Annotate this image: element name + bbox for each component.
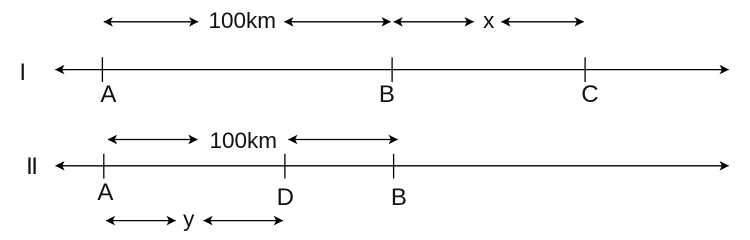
tick A (line I)	[101, 57, 103, 82]
dimension arrow y to D (line II)	[204, 220, 283, 222]
tick D (line II)	[284, 154, 286, 179]
dimension arrow A to 100km (line II)	[108, 139, 197, 141]
svg-text:C: C	[581, 81, 598, 108]
dimension arrow B to x (line I)	[394, 21, 474, 23]
svg-text:y: y	[183, 206, 195, 231]
svg-text:A: A	[100, 81, 116, 108]
svg-text:100km: 100km	[209, 8, 277, 33]
svg-text:A: A	[97, 179, 113, 206]
tick C (line I)	[584, 57, 586, 82]
svg-text:B: B	[391, 184, 407, 211]
tick B (line I)	[391, 57, 393, 82]
svg-text:II: II	[26, 153, 36, 180]
svg-text:I: I	[19, 59, 26, 86]
dimension arrow A to y (line II)	[106, 220, 176, 222]
tick A (line II)	[103, 154, 105, 179]
svg-text:x: x	[483, 8, 495, 33]
dimension arrow A to 100km (line I)	[104, 21, 198, 23]
svg-text:D: D	[277, 184, 294, 211]
dimension arrow 100km to B (line I)	[284, 21, 390, 23]
number line I	[55, 69, 728, 71]
svg-text:B: B	[379, 81, 395, 108]
number line II	[56, 165, 729, 167]
svg-text:100km: 100km	[210, 128, 278, 153]
dimension arrow x to C (line I)	[501, 21, 583, 23]
tick B (line II)	[393, 154, 395, 179]
dimension arrow 100km to B (line II)	[288, 139, 397, 141]
